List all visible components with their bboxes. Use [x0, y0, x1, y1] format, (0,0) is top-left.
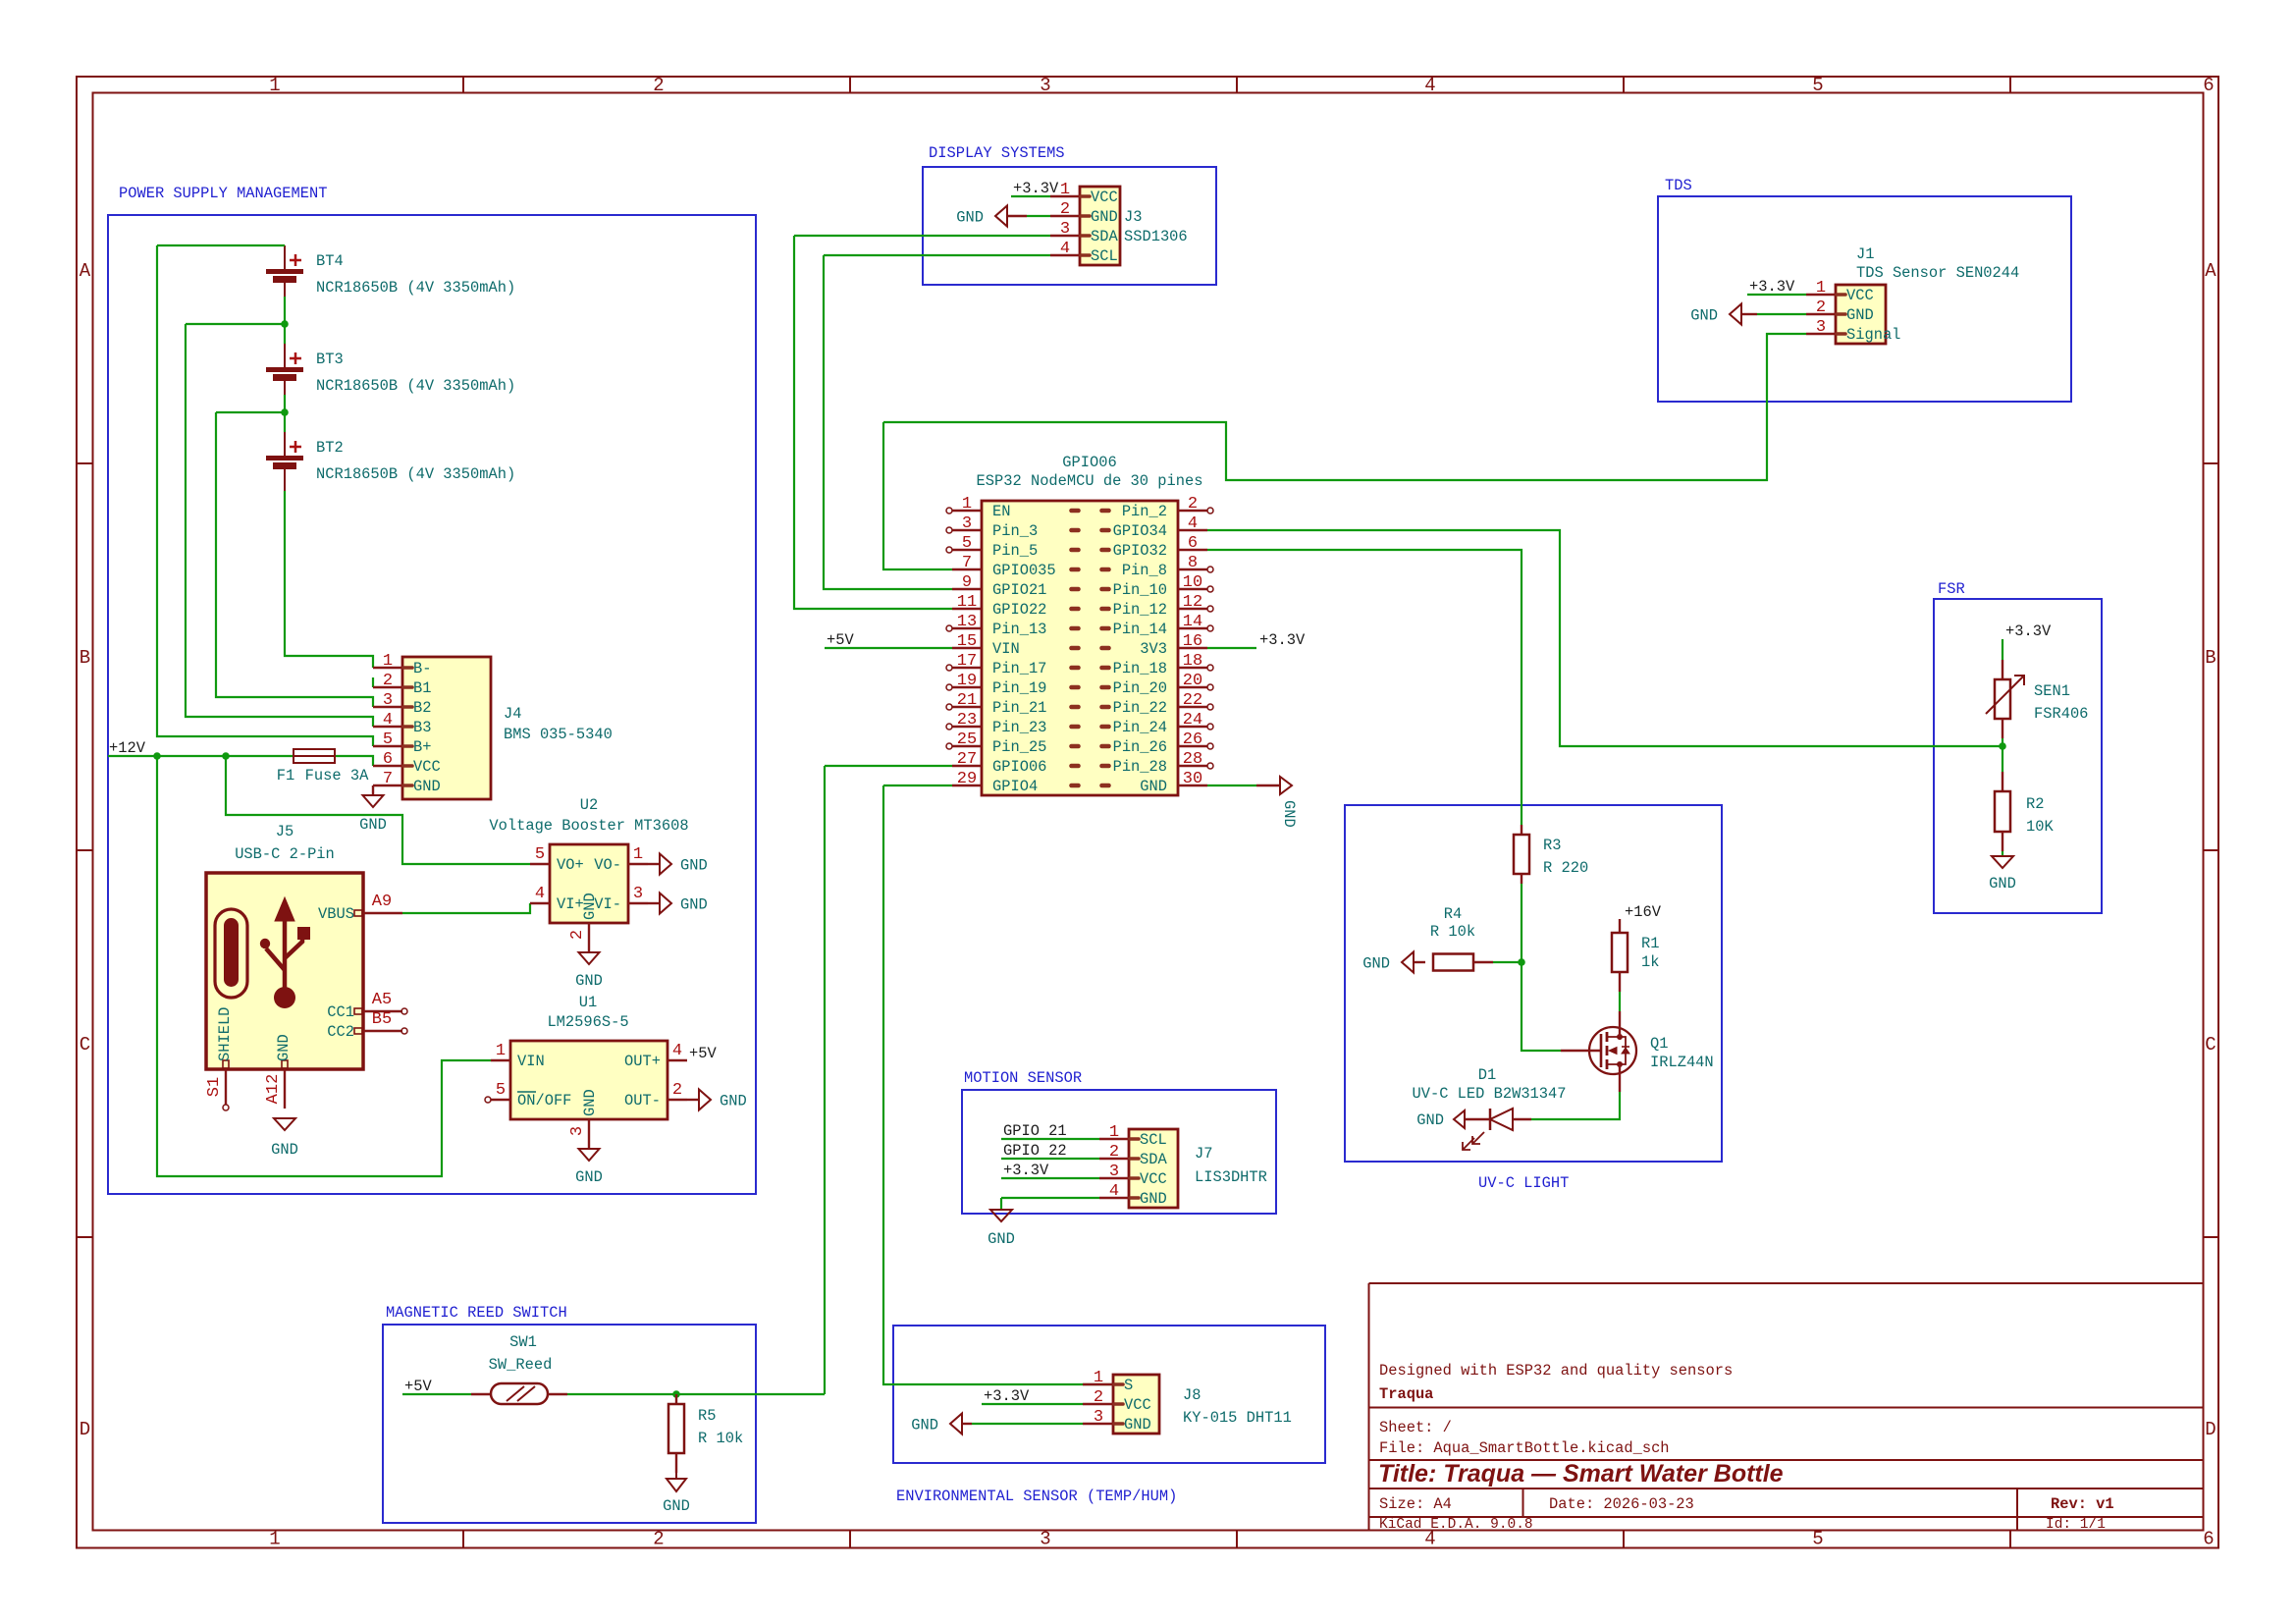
svg-text:GPIO 22: GPIO 22 [1003, 1142, 1067, 1160]
svg-text:3: 3 [1094, 1408, 1103, 1427]
svg-text:1: 1 [633, 845, 643, 864]
svg-text:BT3: BT3 [316, 351, 344, 368]
svg-text:OUT+: OUT+ [624, 1053, 661, 1070]
svg-text:1k: 1k [1641, 953, 1659, 971]
svg-text:SDA: SDA [1091, 228, 1118, 245]
svg-text:GND: GND [1280, 800, 1298, 828]
svg-text:GND: GND [359, 816, 387, 834]
svg-text:ESP32 NodeMCU de 30 pines: ESP32 NodeMCU de 30 pines [977, 472, 1203, 490]
svg-text:J7: J7 [1195, 1145, 1212, 1163]
svg-text:17: 17 [957, 652, 977, 671]
svg-text:5: 5 [962, 534, 972, 553]
svg-text:9: 9 [962, 573, 972, 592]
svg-text:C: C [80, 1034, 90, 1056]
svg-text:Pin_3: Pin_3 [992, 522, 1038, 540]
svg-text:Pin_12: Pin_12 [1113, 601, 1167, 619]
svg-text:GND: GND [1416, 1111, 1444, 1129]
svg-text:OUT-: OUT- [624, 1092, 661, 1110]
svg-text:SW_Reed: SW_Reed [489, 1356, 553, 1374]
svg-text:Traqua: Traqua [1379, 1385, 1433, 1403]
svg-text:+3.3V: +3.3V [1003, 1162, 1049, 1179]
svg-text:GND: GND [1140, 1190, 1167, 1208]
svg-text:C: C [2205, 1034, 2216, 1056]
svg-text:GND: GND [680, 857, 708, 875]
svg-text:1: 1 [269, 75, 280, 96]
svg-text:SCL: SCL [1091, 247, 1118, 265]
svg-text:24: 24 [1183, 711, 1202, 730]
svg-text:J1: J1 [1856, 245, 1874, 263]
svg-text:20: 20 [1183, 672, 1202, 690]
svg-text:12: 12 [1183, 593, 1202, 612]
svg-text:Pin_21: Pin_21 [992, 699, 1046, 717]
svg-text:J3: J3 [1124, 208, 1142, 226]
svg-text:Pin_18: Pin_18 [1113, 660, 1167, 677]
svg-text:10K: 10K [2026, 818, 2054, 836]
svg-text:Pin_22: Pin_22 [1113, 699, 1167, 717]
svg-text:U1: U1 [579, 994, 597, 1011]
svg-text:Pin_24: Pin_24 [1113, 719, 1167, 736]
svg-text:7: 7 [962, 554, 972, 572]
svg-text:GND: GND [575, 1168, 603, 1186]
svg-text:ENVIRONMENTAL SENSOR (TEMP/HUM: ENVIRONMENTAL SENSOR (TEMP/HUM) [896, 1488, 1177, 1505]
svg-text:23: 23 [957, 711, 977, 730]
svg-text:1: 1 [962, 495, 972, 514]
svg-text:CC2: CC2 [327, 1023, 354, 1041]
svg-text:VCC: VCC [1124, 1396, 1151, 1414]
svg-text:GPIO035: GPIO035 [992, 562, 1056, 579]
svg-text:4: 4 [535, 885, 545, 903]
svg-text:2: 2 [1816, 298, 1826, 317]
svg-text:VCC: VCC [1140, 1170, 1167, 1188]
svg-text:1: 1 [1109, 1123, 1119, 1142]
svg-text:Pin_23: Pin_23 [992, 719, 1046, 736]
svg-text:30: 30 [1183, 770, 1202, 788]
svg-text:B1: B1 [413, 679, 431, 697]
svg-text:GND: GND [413, 778, 441, 795]
svg-text:GPIO06: GPIO06 [1062, 454, 1116, 471]
svg-text:3V3: 3V3 [1140, 640, 1167, 658]
svg-text:Date: 2026-03-23: Date: 2026-03-23 [1549, 1495, 1694, 1513]
svg-text:Pin_8: Pin_8 [1122, 562, 1167, 579]
svg-text:3: 3 [383, 691, 393, 710]
svg-text:NCR18650B (4V 3350mAh): NCR18650B (4V 3350mAh) [316, 465, 515, 483]
svg-text:SEN1: SEN1 [2034, 682, 2070, 700]
svg-text:Signal: Signal [1846, 326, 1900, 344]
svg-text:FSR: FSR [1938, 580, 1965, 598]
svg-text:5: 5 [383, 731, 393, 749]
svg-text:B3: B3 [413, 719, 431, 736]
svg-text:GND: GND [1690, 307, 1718, 325]
svg-text:NCR18650B (4V 3350mAh): NCR18650B (4V 3350mAh) [316, 279, 515, 297]
svg-text:3: 3 [962, 514, 972, 533]
svg-text:R4: R4 [1444, 905, 1462, 923]
svg-text:B: B [80, 647, 90, 669]
svg-text:BT2: BT2 [316, 439, 344, 457]
svg-text:File: Aqua_SmartBottle.kicad_s: File: Aqua_SmartBottle.kicad_sch [1379, 1439, 1670, 1457]
svg-text:GND: GND [988, 1230, 1015, 1248]
svg-text:R3: R3 [1543, 837, 1561, 854]
svg-text:R2: R2 [2026, 795, 2044, 813]
svg-text:Pin_2: Pin_2 [1122, 503, 1167, 520]
svg-text:D: D [80, 1419, 90, 1440]
svg-text:1: 1 [1816, 279, 1826, 298]
svg-text:3: 3 [1109, 1163, 1119, 1181]
svg-text:1: 1 [269, 1529, 280, 1550]
svg-text:4: 4 [1424, 75, 1435, 96]
svg-text:S: S [1124, 1377, 1133, 1394]
svg-text:7: 7 [383, 770, 393, 788]
svg-text:2: 2 [1060, 200, 1070, 219]
svg-text:GND: GND [911, 1417, 938, 1435]
svg-text:2: 2 [653, 1529, 664, 1550]
svg-text:B5: B5 [372, 1010, 392, 1029]
svg-text:GPIO22: GPIO22 [992, 601, 1046, 619]
svg-text:R1: R1 [1641, 935, 1659, 952]
svg-text:J4: J4 [504, 705, 521, 723]
svg-text:VCC: VCC [1846, 287, 1874, 304]
svg-text:D1: D1 [1478, 1066, 1496, 1084]
svg-text:SW1: SW1 [509, 1333, 537, 1351]
svg-text:GPIO 21: GPIO 21 [1003, 1122, 1067, 1140]
svg-text:6: 6 [383, 750, 393, 769]
svg-text:Pin_17: Pin_17 [992, 660, 1046, 677]
svg-text:3: 3 [1060, 220, 1070, 239]
svg-text:+12V: +12V [109, 739, 146, 757]
svg-text:MOTION SENSOR: MOTION SENSOR [964, 1069, 1082, 1087]
svg-text:GND: GND [581, 1089, 599, 1116]
svg-text:A12: A12 [264, 1074, 283, 1105]
svg-text:GND: GND [581, 893, 599, 920]
svg-text:13: 13 [957, 613, 977, 631]
svg-text:1: 1 [383, 652, 393, 671]
svg-text:SCL: SCL [1140, 1131, 1167, 1149]
svg-text:29: 29 [957, 770, 977, 788]
svg-text:KY-015 DHT11: KY-015 DHT11 [1183, 1409, 1292, 1427]
svg-text:3: 3 [1040, 1529, 1050, 1550]
svg-text:LM2596S-5: LM2596S-5 [547, 1013, 628, 1031]
svg-text:GND: GND [680, 896, 708, 914]
svg-text:Designed with ESP32 and qualit: Designed with ESP32 and quality sensors [1379, 1362, 1733, 1380]
svg-text:Q1: Q1 [1650, 1035, 1668, 1053]
svg-text:R 10k: R 10k [1430, 923, 1475, 941]
svg-text:UV-C LIGHT: UV-C LIGHT [1478, 1174, 1569, 1192]
svg-text:4: 4 [1109, 1182, 1119, 1201]
svg-text:Fuse 3A: Fuse 3A [305, 767, 369, 785]
svg-text:KiCad E.D.A. 9.0.8: KiCad E.D.A. 9.0.8 [1379, 1517, 1533, 1533]
svg-text:18: 18 [1183, 652, 1202, 671]
svg-text:4: 4 [1060, 240, 1070, 258]
svg-text:GND: GND [663, 1497, 690, 1515]
svg-text:Pin_13: Pin_13 [992, 621, 1046, 638]
svg-text:A9: A9 [372, 893, 392, 911]
svg-text:4: 4 [672, 1042, 682, 1060]
svg-text:Pin_20: Pin_20 [1113, 679, 1167, 697]
svg-text:Title: Traqua — Smart Water Bo: Title: Traqua — Smart Water Bottle [1378, 1460, 1784, 1488]
svg-text:VIN: VIN [992, 640, 1020, 658]
svg-text:GND: GND [271, 1141, 298, 1159]
svg-text:Size: A4: Size: A4 [1379, 1495, 1452, 1513]
svg-text:6: 6 [2203, 1529, 2214, 1550]
svg-text:USB-C 2-Pin: USB-C 2-Pin [235, 845, 335, 863]
svg-text:5: 5 [1812, 75, 1823, 96]
svg-text:GPIO34: GPIO34 [1113, 522, 1167, 540]
svg-text:Pin_10: Pin_10 [1113, 581, 1167, 599]
svg-text:F1: F1 [277, 767, 294, 785]
svg-text:ON/OFF: ON/OFF [517, 1092, 571, 1110]
svg-text:DISPLAY SYSTEMS: DISPLAY SYSTEMS [929, 144, 1065, 162]
svg-text:16: 16 [1183, 632, 1202, 651]
svg-text:Pin_26: Pin_26 [1113, 738, 1167, 756]
svg-text:11: 11 [957, 593, 977, 612]
svg-text:J5: J5 [276, 823, 294, 840]
svg-text:2: 2 [1094, 1388, 1103, 1407]
svg-text:+3.3V: +3.3V [1749, 278, 1795, 296]
svg-text:GND: GND [956, 209, 984, 227]
svg-text:VO+: VO+ [557, 856, 584, 874]
svg-text:4: 4 [1188, 514, 1198, 533]
svg-text:SSD1306: SSD1306 [1124, 228, 1188, 245]
svg-text:Pin_14: Pin_14 [1113, 621, 1167, 638]
svg-text:6: 6 [2203, 75, 2214, 96]
svg-text:Pin_25: Pin_25 [992, 738, 1046, 756]
svg-text:VBUS: VBUS [318, 905, 354, 923]
svg-text:2: 2 [1109, 1143, 1119, 1162]
svg-text:3: 3 [1040, 75, 1050, 96]
svg-text:GND: GND [1140, 778, 1167, 795]
svg-text:CC1: CC1 [327, 1003, 354, 1021]
svg-text:4: 4 [383, 711, 393, 730]
svg-text:5: 5 [1812, 1529, 1823, 1550]
svg-text:LIS3DHTR: LIS3DHTR [1195, 1168, 1267, 1186]
svg-text:2: 2 [568, 930, 587, 940]
svg-text:NCR18650B (4V 3350mAh): NCR18650B (4V 3350mAh) [316, 377, 515, 395]
svg-text:R5: R5 [698, 1407, 716, 1425]
svg-text:SHIELD: SHIELD [216, 1007, 234, 1061]
svg-text:B+: B+ [413, 738, 431, 756]
svg-text:UV-C LED B2W31347: UV-C LED B2W31347 [1412, 1085, 1566, 1103]
svg-text:IRLZ44N: IRLZ44N [1650, 1054, 1714, 1071]
svg-text:Voltage Booster MT3608: Voltage Booster MT3608 [489, 817, 688, 835]
svg-text:1: 1 [496, 1042, 506, 1060]
svg-text:GND: GND [1846, 306, 1874, 324]
svg-text:15: 15 [957, 632, 977, 651]
svg-text:B2: B2 [413, 699, 431, 717]
svg-text:2: 2 [1188, 495, 1198, 514]
svg-text:27: 27 [957, 750, 977, 769]
svg-text:5: 5 [496, 1081, 506, 1100]
svg-text:MAGNETIC REED SWITCH: MAGNETIC REED SWITCH [386, 1304, 567, 1322]
svg-text:3: 3 [568, 1126, 587, 1136]
svg-text:Rev: v1: Rev: v1 [2051, 1495, 2114, 1513]
svg-text:GND: GND [720, 1093, 747, 1110]
svg-text:Pin_5: Pin_5 [992, 542, 1038, 560]
svg-text:14: 14 [1183, 613, 1202, 631]
svg-text:FSR406: FSR406 [2034, 705, 2088, 723]
svg-text:6: 6 [1188, 534, 1198, 553]
svg-text:GPIO32: GPIO32 [1113, 542, 1167, 560]
svg-text:VCC: VCC [1091, 189, 1118, 206]
svg-text:+16V: +16V [1625, 903, 1662, 921]
svg-text:BMS 035-5340: BMS 035-5340 [504, 726, 613, 743]
svg-text:26: 26 [1183, 731, 1202, 749]
svg-text:1: 1 [1060, 181, 1070, 199]
svg-text:VI+: VI+ [557, 895, 584, 913]
svg-text:U2: U2 [580, 796, 598, 814]
svg-text:10: 10 [1183, 573, 1202, 592]
svg-text:22: 22 [1183, 691, 1202, 710]
svg-text:J8: J8 [1183, 1386, 1201, 1404]
svg-text:B-: B- [413, 660, 431, 677]
svg-text:+5V: +5V [404, 1378, 432, 1395]
svg-text:VIN: VIN [517, 1053, 545, 1070]
svg-text:Pin_19: Pin_19 [992, 679, 1046, 697]
svg-text:S1: S1 [205, 1077, 224, 1097]
svg-text:B: B [2205, 647, 2216, 669]
svg-text:+3.3V: +3.3V [2005, 623, 2052, 640]
svg-text:3: 3 [633, 885, 643, 903]
svg-text:GND: GND [1362, 955, 1390, 973]
svg-text:R 10k: R 10k [698, 1430, 743, 1447]
svg-text:GND: GND [275, 1034, 293, 1061]
svg-text:2: 2 [383, 672, 393, 690]
svg-text:3: 3 [1816, 318, 1826, 337]
svg-text:1: 1 [1094, 1369, 1103, 1387]
svg-text:8: 8 [1188, 554, 1198, 572]
svg-text:VO-: VO- [594, 856, 621, 874]
svg-text:TDS Sensor SEN0244: TDS Sensor SEN0244 [1856, 264, 2019, 282]
svg-text:5: 5 [535, 845, 545, 864]
svg-text:BT4: BT4 [316, 252, 344, 270]
svg-text:GND: GND [1091, 208, 1118, 226]
svg-text:EN: EN [992, 503, 1010, 520]
svg-text:+3.3V: +3.3V [1259, 631, 1306, 649]
svg-text:GPIO4: GPIO4 [992, 778, 1038, 795]
svg-text:2: 2 [672, 1081, 682, 1100]
svg-text:GND: GND [1989, 875, 2016, 893]
svg-text:POWER SUPPLY MANAGEMENT: POWER SUPPLY MANAGEMENT [119, 185, 327, 202]
svg-text:GND: GND [575, 972, 603, 990]
svg-text:+5V: +5V [689, 1045, 717, 1062]
svg-text:+3.3V: +3.3V [984, 1387, 1030, 1405]
svg-text:21: 21 [957, 691, 977, 710]
svg-text:A: A [80, 260, 91, 282]
svg-text:GND: GND [1124, 1416, 1151, 1434]
svg-text:R 220: R 220 [1543, 859, 1588, 877]
svg-text:+5V: +5V [827, 631, 854, 649]
svg-text:TDS: TDS [1665, 177, 1692, 194]
svg-text:28: 28 [1183, 750, 1202, 769]
svg-text:Sheet: /: Sheet: / [1379, 1419, 1452, 1436]
svg-text:Id: 1/1: Id: 1/1 [2046, 1517, 2106, 1533]
svg-text:+3.3V: +3.3V [1013, 180, 1059, 197]
svg-text:2: 2 [653, 75, 664, 96]
svg-text:19: 19 [957, 672, 977, 690]
svg-text:SDA: SDA [1140, 1151, 1167, 1168]
svg-text:GPIO06: GPIO06 [992, 758, 1046, 776]
svg-text:VCC: VCC [413, 758, 441, 776]
svg-text:A: A [2205, 260, 2216, 282]
svg-text:Pin_28: Pin_28 [1113, 758, 1167, 776]
svg-text:A5: A5 [372, 991, 392, 1009]
svg-text:GPIO21: GPIO21 [992, 581, 1046, 599]
svg-text:25: 25 [957, 731, 977, 749]
svg-text:D: D [2205, 1419, 2216, 1440]
